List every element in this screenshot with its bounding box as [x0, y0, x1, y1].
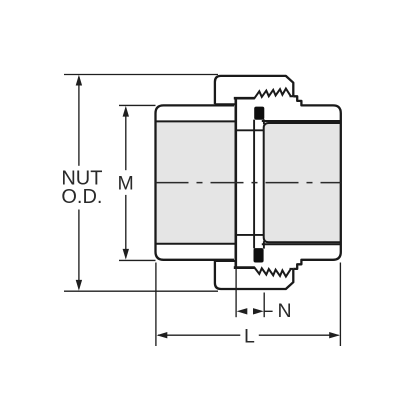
centerline — [156, 182, 341, 184]
M extension line top — [119, 104, 156, 106]
N arrow left — [237, 308, 248, 314]
left body outline — [156, 105, 235, 259]
M arrow down — [123, 249, 129, 260]
svg-text:L: L — [244, 325, 255, 347]
M dimension line lower — [125, 195, 127, 258]
nut od arrow down — [76, 280, 82, 291]
union nut top silhouette — [215, 76, 293, 104]
nut od extension line top — [64, 74, 218, 76]
nut od extension line bottom — [64, 290, 218, 292]
o-ring seal bottom — [254, 248, 264, 262]
thread zigzag bottom — [254, 267, 293, 277]
svg-text:N: N — [278, 300, 292, 322]
flange top line — [234, 97, 255, 100]
nut inner lip line top — [215, 103, 235, 105]
nut od arrow up — [76, 75, 82, 86]
L arrow left — [157, 332, 168, 338]
right body shoulder and outline — [293, 96, 341, 269]
right body socket line top — [262, 120, 340, 122]
svg-text:M: M — [117, 172, 133, 194]
M arrow up — [123, 106, 129, 117]
o-ring seal top — [254, 107, 264, 120]
flange step vertical — [235, 98, 238, 269]
L dimension line right segment — [259, 334, 339, 336]
N dimension tail line — [264, 310, 272, 312]
L dimension line left segment — [158, 334, 240, 336]
thread zigzag top — [254, 89, 293, 99]
union nut bottom silhouette — [215, 261, 293, 289]
L arrow right — [329, 332, 340, 338]
right body gray bore band — [264, 123, 341, 242]
N extension line left — [235, 268, 237, 317]
groove line top — [235, 129, 264, 131]
M extension line bottom — [119, 259, 156, 261]
groove line bottom — [235, 234, 264, 236]
nut inner lip line bottom — [215, 260, 235, 262]
left body bore line top — [157, 120, 236, 122]
nut od dimension line lower — [78, 210, 80, 289]
left body bore line bottom — [157, 243, 236, 245]
nut od dimension line upper — [78, 77, 80, 166]
L extension line left — [155, 263, 157, 347]
N extension line right — [263, 293, 265, 318]
flange end face — [253, 120, 255, 249]
flange bottom line — [234, 266, 255, 269]
right body socket line bottom — [262, 243, 340, 245]
right body face lower segment — [263, 241, 265, 248]
L extension line right — [339, 263, 341, 347]
right body face upper segment — [263, 119, 265, 124]
N arrow right — [253, 308, 264, 314]
M dimension line upper — [125, 108, 127, 170]
svg-text:O.D.: O.D. — [61, 186, 102, 208]
left body gray bore fill — [157, 122, 236, 242]
